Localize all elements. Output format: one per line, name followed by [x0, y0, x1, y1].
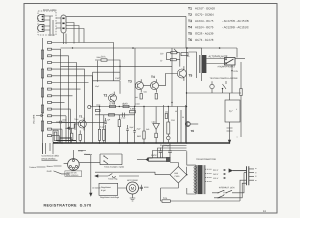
long vertical x172 [171, 48, 173, 107]
input DIN sockets dashed enclosure [38, 11, 56, 35]
transistor T2 [109, 94, 117, 102]
switch INTERRUT GEN [219, 187, 235, 188]
head connector circle [68, 159, 80, 171]
resistor T1 emitter [79, 134, 81, 140]
left resistor chain [42, 38, 44, 154]
output transistor T5 [177, 69, 186, 78]
transistor list [188, 7, 249, 41]
ground motor [130, 194, 136, 201]
switch Tasto Reg [95, 175, 139, 177]
transistor T3 [135, 82, 143, 90]
T1 stage coupling cap [56, 121, 65, 124]
mid wire y66.4 [61, 65, 173, 67]
jack J3 [151, 154, 157, 156]
fuse FUS [162, 200, 170, 203]
erase head row [210, 77, 238, 79]
arrow tap selector [229, 169, 233, 172]
transistor T4 [151, 82, 159, 90]
head connector note [42, 155, 59, 160]
capacitors C filter 2000uF [163, 145, 170, 147]
label ALTOPARLANTE [209, 56, 228, 58]
preamp stage T2 [95, 60, 120, 82]
resistor above T5 b [170, 59, 176, 61]
resistor above T5 [171, 52, 177, 54]
bridge rectifier B30 C300 [170, 167, 187, 184]
transistor T1 [78, 120, 86, 128]
switch Tasto avvolgimento box [100, 154, 122, 165]
DIN socket J1 [38, 15, 45, 22]
DIN socket J2 [38, 25, 44, 32]
box Regolatore di giri [99, 183, 118, 195]
emitter resistor [140, 94, 142, 100]
wire [56, 18, 61, 28]
page border frame [24, 4, 277, 214]
capacitors and resistors vertical group [62, 118, 107, 143]
ground bus thick [53, 142, 230, 144]
volume pot [53, 130, 58, 142]
long vertical feed [185, 16, 188, 143]
T6 stage [185, 122, 190, 127]
page number 13 [263, 210, 265, 212]
mid rail y48 [61, 48, 238, 58]
connector mains plug [247, 166, 249, 185]
motor M1 MOTORINO [127, 182, 139, 194]
labels Testina Bianco Giallo Verde Rosso [29, 150, 90, 172]
top supply rail [66, 15, 186, 17]
taps voltage selector [205, 169, 212, 181]
box erase-head terminal 0,7 [225, 100, 240, 122]
record head / diode arrow [153, 123, 160, 129]
wire mid lower rails [90, 106, 187, 108]
speaker SP [225, 58, 236, 66]
label ENTR LINEA [43, 9, 56, 11]
title REGISTRATORE G.570 [44, 204, 91, 207]
resistors R on rail [110, 105, 116, 107]
small parts above T1 [88, 105, 91, 108]
output transformer [200, 55, 202, 73]
resistor T1 bias [71, 133, 73, 139]
capacitor motor 5000pF [140, 185, 142, 191]
value labels group [62, 56, 237, 146]
left input pin strip [48, 42, 114, 144]
arrow al motore [90, 155, 92, 196]
label box [65, 171, 82, 177]
wire mains loops [212, 173, 247, 198]
small relay contact [181, 53, 188, 56]
wire stacked supply feeds [153, 143, 187, 158]
wire bundle switch to ladder [66, 23, 84, 44]
wire bundle from sockets [50, 16, 66, 44]
slide switch S1 [61, 15, 66, 33]
transformer T mains TRASFORMATORE [198, 165, 203, 194]
